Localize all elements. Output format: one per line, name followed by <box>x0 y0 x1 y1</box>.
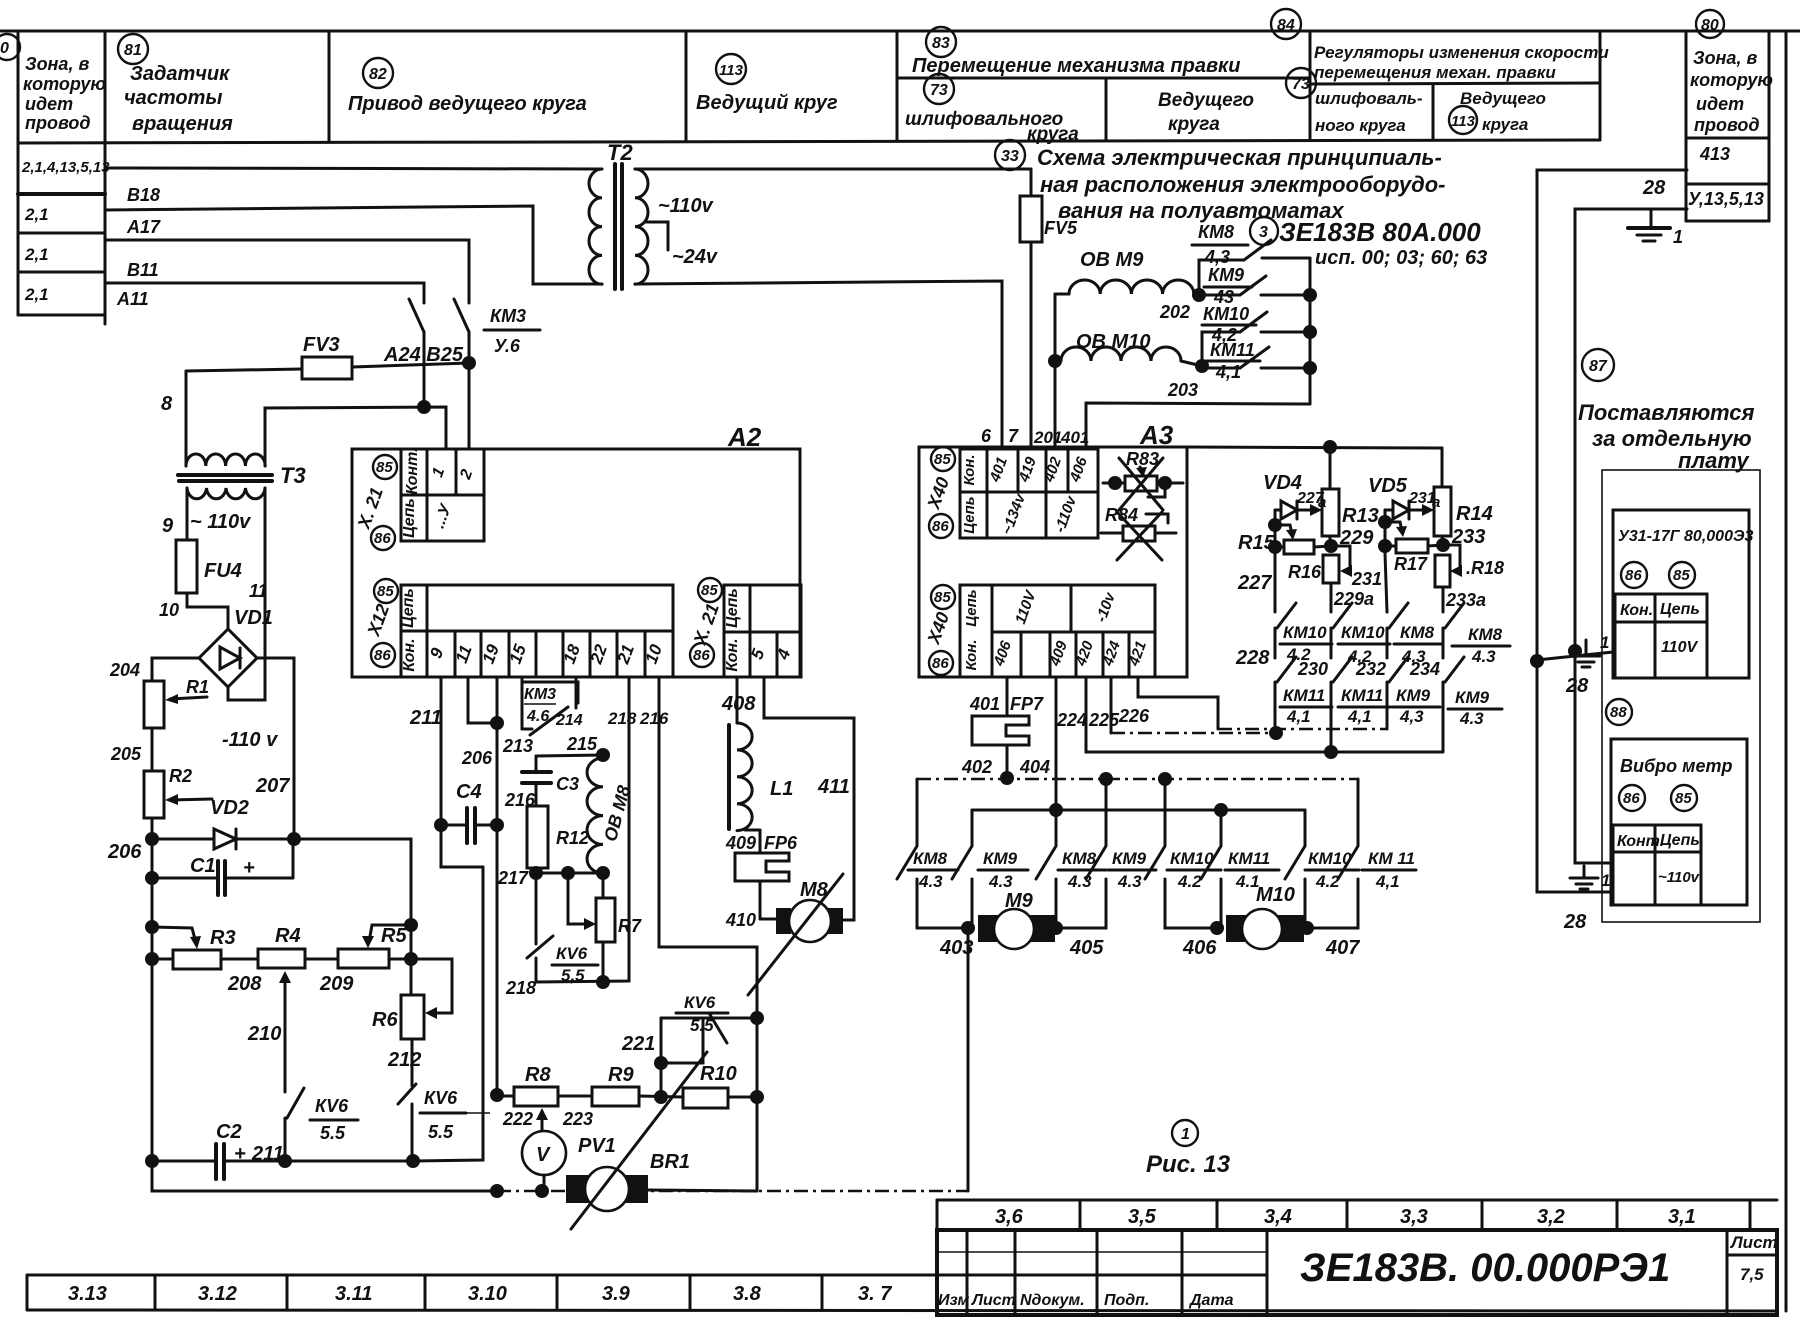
svg-text:ного круга: ного круга <box>1315 116 1406 135</box>
wire pin10 / 216 <box>659 677 757 1191</box>
svg-text:86: 86 <box>693 647 710 664</box>
wire node211 row <box>285 1160 413 1163</box>
rheostat R7 <box>568 873 642 942</box>
svg-text:А11: А11 <box>116 289 149 309</box>
wire T2 secondary bottom (6/7) <box>635 281 1002 447</box>
svg-text:3.10: 3.10 <box>468 1283 507 1305</box>
ladder right bus <box>1303 258 1317 404</box>
svg-text:КV6: КV6 <box>424 1088 458 1108</box>
svg-text:R5: R5 <box>381 925 407 947</box>
svg-text:3,4: 3,4 <box>1264 1206 1292 1228</box>
node R10 right dot <box>750 1090 764 1104</box>
svg-text:7: 7 <box>1008 426 1019 446</box>
svg-text:225: 225 <box>1088 710 1120 730</box>
thermal relay FP6 <box>725 830 798 919</box>
svg-text:Кон.: Кон. <box>401 638 418 671</box>
wire 224 pin420 <box>1086 677 1442 752</box>
svg-text:Схема электрическая принципиа: Схема электрическая принципиаль- <box>1037 145 1442 170</box>
circle 85 (У31) <box>1669 562 1695 588</box>
node 206 dot <box>145 832 159 846</box>
svg-text:88: 88 <box>1610 704 1627 721</box>
circle 85 (X.21 top) <box>373 455 397 479</box>
rheostat R16 <box>1288 546 1352 610</box>
svg-text:R4: R4 <box>275 925 301 947</box>
svg-text:113: 113 <box>1451 113 1476 130</box>
circle 85 (X.21 right) <box>698 578 722 602</box>
svg-text:Вибро метр: Вибро метр <box>1620 756 1732 776</box>
svg-text:шлифоваль-: шлифоваль- <box>1315 89 1423 108</box>
svg-text:Цепь: Цепь <box>961 496 978 533</box>
svg-text:3.12: 3.12 <box>198 1283 237 1305</box>
junction dot A24 wire <box>417 400 431 414</box>
svg-text:409: 409 <box>725 833 756 853</box>
wire 201/202 left vertical <box>1054 294 1057 447</box>
svg-text:В18: В18 <box>127 185 160 205</box>
contact col4 KM9 4.3 (M9 right) <box>1056 779 1156 928</box>
potentiometer R17 <box>1378 510 1443 574</box>
node VD5/R17 wiper dot <box>1378 515 1392 529</box>
zone circle 1 <box>1172 1120 1198 1146</box>
svg-text:209: 209 <box>319 973 354 995</box>
contact col1 KM8 4.3 (M9) <box>897 779 968 928</box>
svg-text:А17: А17 <box>126 217 161 237</box>
resistor R4 <box>221 925 305 968</box>
circle 85 (X40 top) <box>931 447 955 471</box>
svg-text:Ведущий круг: Ведущий круг <box>696 92 838 114</box>
svg-text:R83: R83 <box>1126 449 1159 469</box>
svg-text:230: 230 <box>1297 659 1328 679</box>
svg-text:КМ11: КМ11 <box>1210 340 1255 360</box>
connector X.21 table (right) <box>724 585 801 677</box>
circle 85 (X40 bottom) <box>931 585 955 609</box>
node VD4/R15 wiper dot <box>1268 518 1282 532</box>
label KM8/4.3 (top) <box>1192 222 1248 267</box>
svg-text:4.3: 4.3 <box>988 872 1013 891</box>
zone circle 73 col E <box>924 74 954 104</box>
svg-text:218: 218 <box>505 978 536 998</box>
svg-text:КМ9: КМ9 <box>983 849 1018 868</box>
svg-text:4.2: 4.2 <box>1177 872 1202 891</box>
svg-text:+: + <box>243 857 255 879</box>
wire 215 <box>536 755 603 756</box>
svg-text:R14: R14 <box>1456 503 1493 525</box>
wire FU4 to VD1 top <box>187 593 228 629</box>
svg-text:211: 211 <box>409 707 442 729</box>
svg-text:М10: М10 <box>1256 884 1295 906</box>
svg-text:R3: R3 <box>210 927 236 949</box>
resistor R13 <box>1322 448 1379 549</box>
svg-text:234: 234 <box>1409 659 1440 679</box>
diode VD5 <box>1368 475 1440 519</box>
wire 225 pin424 <box>1111 677 1276 733</box>
block Виброметр <box>1611 739 1747 905</box>
wire pin406 to FP7 <box>1006 677 1009 716</box>
svg-text:1: 1 <box>1181 1126 1190 1143</box>
svg-text:85: 85 <box>934 589 951 606</box>
bottom zone strip (left) <box>27 1275 1777 1311</box>
contact KM9 43 (ladder) <box>1199 265 1310 307</box>
M8 coupling slash <box>748 874 843 995</box>
svg-text:Цепь: Цепь <box>400 588 417 628</box>
svg-text:КМ8: КМ8 <box>913 849 948 868</box>
svg-text:7,5: 7,5 <box>1740 1265 1764 1284</box>
crossed resistor R84 <box>1101 505 1176 560</box>
svg-text:КМ8: КМ8 <box>1062 849 1097 868</box>
svg-text:Цепь: Цепь <box>724 588 741 628</box>
junction dot FV3/B25 <box>462 356 476 370</box>
zone circle 30 <box>0 34 20 60</box>
svg-text:Лист: Лист <box>971 1292 1016 1309</box>
svg-text:R16: R16 <box>1288 562 1322 582</box>
svg-text:0: 0 <box>0 40 9 57</box>
svg-text:205: 205 <box>110 744 142 764</box>
svg-text:FР7: FР7 <box>1010 694 1044 714</box>
svg-text:411: 411 <box>817 776 850 798</box>
wire pin19 <box>496 677 499 1095</box>
svg-text:ЗЕ183В. 00.000РЭ1: ЗЕ183В. 00.000РЭ1 <box>1300 1246 1670 1290</box>
circle 86 (Виброметр) <box>1619 785 1645 811</box>
svg-text:202: 202 <box>1159 302 1190 322</box>
svg-text:R2: R2 <box>169 766 192 786</box>
svg-text:401: 401 <box>969 694 1000 714</box>
text Поставляются за отдельную плату <box>1578 400 1754 473</box>
wire R2 to node 206 <box>151 818 154 839</box>
svg-text:Лист: Лист <box>1729 1233 1778 1252</box>
svg-text:4.6: 4.6 <box>526 708 549 725</box>
wire B11 <box>105 283 424 303</box>
svg-text:85: 85 <box>934 451 951 468</box>
node 213 dot <box>490 716 504 730</box>
svg-text:КМ10: КМ10 <box>1283 623 1327 642</box>
svg-text:КV6: КV6 <box>315 1096 349 1116</box>
svg-text:Кон.: Кон. <box>724 638 741 671</box>
svg-text:406: 406 <box>1182 937 1217 959</box>
header table: left zone column box <box>18 33 1600 324</box>
connector X.21 table (top) <box>401 447 484 541</box>
node 405 dot <box>1049 921 1063 935</box>
wire 28 vertical to У31 <box>1530 654 1544 668</box>
svg-text:провод: провод <box>25 113 91 133</box>
svg-text:КМ9: КМ9 <box>1455 688 1490 707</box>
header text: Задатчик частоты вращения <box>124 63 233 135</box>
potentiometer R15 <box>1238 510 1331 554</box>
svg-text:1: 1 <box>1600 633 1609 652</box>
right zone table (80) <box>1686 33 1769 221</box>
rheostat R6 <box>372 995 424 1039</box>
svg-text:403: 403 <box>939 937 973 959</box>
rail 402 <box>917 772 1358 786</box>
svg-text:которую: которую <box>1690 70 1773 90</box>
field winding OB M9 coil <box>1055 249 1199 295</box>
svg-text:216: 216 <box>639 709 669 728</box>
contact chain col4 KM8 4.3 / KM9 4.3 <box>1443 603 1510 752</box>
svg-text:Рис. 13: Рис. 13 <box>1146 1151 1231 1178</box>
thermal relay FP7 <box>972 716 1029 778</box>
wire 217 <box>536 872 603 875</box>
svg-text:Т2: Т2 <box>607 140 633 165</box>
svg-text:идет: идет <box>25 94 73 114</box>
svg-text:R8: R8 <box>525 1064 551 1086</box>
svg-text:3.13: 3.13 <box>68 1283 107 1305</box>
svg-text:КМ9: КМ9 <box>1208 265 1244 285</box>
crossed resistor R83 <box>1103 449 1183 510</box>
svg-text:КМ8: КМ8 <box>1198 222 1234 242</box>
header text: Регуляторы изменения скорости перемещения механ правки <box>1314 43 1609 82</box>
svg-text:2,1: 2,1 <box>24 245 49 264</box>
svg-text:211: 211 <box>251 1143 284 1165</box>
motor M10 <box>1226 884 1304 949</box>
svg-text:86: 86 <box>932 518 949 535</box>
header text: Ведущего круга (col E) <box>1158 90 1254 135</box>
wire У,13,5,13 ground branch <box>1575 209 1687 647</box>
T2 24V tap <box>646 222 668 250</box>
svg-text:круга: круга <box>1027 124 1079 145</box>
svg-text:+: + <box>234 1143 246 1165</box>
svg-text:3,2: 3,2 <box>1537 1206 1565 1228</box>
wire B18 <box>105 206 602 284</box>
svg-text:КМ11: КМ11 <box>1341 686 1383 705</box>
wire pin11 jog <box>468 677 497 723</box>
wire 8 vertical to T3 <box>185 371 188 466</box>
wire A17 <box>105 240 469 303</box>
svg-text:КМ3: КМ3 <box>524 686 556 703</box>
header column line between col113 and col83 <box>896 31 899 141</box>
svg-text:ОВ М9: ОВ М9 <box>1080 249 1144 271</box>
circle 86 (X40 top) <box>929 514 953 538</box>
wire node207 to pin9/211 branch <box>294 839 411 925</box>
node 207 dot <box>287 832 301 846</box>
svg-text:113: 113 <box>719 62 744 79</box>
wire У,13,5,13 vertical dot <box>1568 644 1582 658</box>
svg-text:R1: R1 <box>186 677 209 697</box>
svg-text:Зона, в: Зона, в <box>1693 48 1757 68</box>
potentiometer R1 <box>144 677 209 728</box>
svg-text:86: 86 <box>932 655 949 672</box>
svg-text:~110v: ~110v <box>658 195 715 217</box>
svg-text:3. 7: 3. 7 <box>858 1283 892 1305</box>
svg-text:3: 3 <box>1259 224 1268 241</box>
header column line between col83 and col84 <box>1309 33 1312 140</box>
circle 85 (Виброметр) <box>1671 785 1697 811</box>
zone circle 82 <box>363 58 393 88</box>
circle 86 (X12) <box>371 643 395 667</box>
zone circle 33 <box>995 140 1025 170</box>
svg-text:402: 402 <box>961 757 992 777</box>
svg-text:РV1: РV1 <box>578 1135 616 1157</box>
BR1 coupling slash <box>571 1052 707 1229</box>
wire left rail to bottom rail <box>152 1161 497 1191</box>
header text: Зона в которую идет провод (left) <box>23 54 106 133</box>
label 218 216 (pins) <box>607 709 669 728</box>
svg-text:8: 8 <box>161 393 173 415</box>
svg-text:У.6: У.6 <box>494 336 521 356</box>
svg-text:исп. 00; 03; 60; 63: исп. 00; 03; 60; 63 <box>1315 247 1487 269</box>
svg-text:~ 110v: ~ 110v <box>190 511 252 533</box>
wire T2 secondary top to FV5 <box>635 168 1031 171</box>
left rail down <box>151 878 154 1161</box>
resistor R12 <box>527 806 589 873</box>
node 211 dot <box>278 1154 292 1168</box>
svg-text:круга: круга <box>1168 114 1220 135</box>
transformer T3 <box>178 454 306 499</box>
svg-text:С2: С2 <box>216 1121 242 1143</box>
contact KM8 4.3 (ladder) <box>1199 240 1310 295</box>
contact chain col2 KM10 4.2 / KM11 4.1 <box>1331 603 1390 752</box>
svg-text:73: 73 <box>1292 76 1310 93</box>
svg-text:1: 1 <box>1601 871 1610 890</box>
zone circle 87 <box>1582 349 1614 381</box>
svg-text:229а: 229а <box>1333 589 1374 609</box>
circle 86 (X40 bottom) <box>929 651 953 675</box>
contact col7 KM10 4.2 (M10 right) <box>1285 810 1359 928</box>
motor M9 <box>978 890 1055 949</box>
svg-text:213: 213 <box>502 736 533 756</box>
wire 2,1,4,13,5,13 to T2 primary top <box>105 168 602 169</box>
block У31-17Г 80.000Э3 <box>1613 510 1753 678</box>
ground symbol (top right) <box>1628 209 1683 247</box>
svg-text:2,1: 2,1 <box>24 205 49 224</box>
svg-text:86: 86 <box>1623 790 1640 807</box>
svg-text:28: 28 <box>1563 911 1587 933</box>
wire VD1 right output down to node 207 <box>257 658 294 839</box>
svg-text:КМ8: КМ8 <box>1468 625 1503 644</box>
svg-text:233а: 233а <box>1445 590 1486 610</box>
svg-text:3,5: 3,5 <box>1128 1206 1157 1228</box>
wire col3 top from VD5 node <box>1384 546 1387 553</box>
svg-text:218: 218 <box>607 709 637 728</box>
svg-text:-110 v: -110 v <box>222 729 279 751</box>
svg-text:КМ9: КМ9 <box>1112 849 1147 868</box>
svg-text:Конт.: Конт. <box>404 447 421 494</box>
svg-text:А3: А3 <box>1139 420 1174 450</box>
svg-text:214: 214 <box>555 712 583 729</box>
svg-text:204: 204 <box>109 660 140 680</box>
svg-text:FV3: FV3 <box>303 334 340 356</box>
svg-text:С3: С3 <box>556 774 579 794</box>
node 402 dot on rail <box>1000 771 1014 785</box>
svg-text:С1: С1 <box>190 855 216 877</box>
svg-text:Ведущего: Ведущего <box>1158 90 1254 111</box>
svg-text:224: 224 <box>1056 710 1087 730</box>
title block labels <box>938 1233 1778 1309</box>
svg-text:которую: которую <box>23 74 106 94</box>
contact chain col1 KM10 4.2 / KM11 4.1 <box>1275 553 1332 733</box>
svg-text:203: 203 <box>1167 380 1198 400</box>
diode VD2 <box>152 797 294 849</box>
svg-text:3,3: 3,3 <box>1400 1206 1428 1228</box>
connector X40 table (bottom) <box>960 585 1155 677</box>
title block <box>937 1230 1777 1315</box>
svg-text:86: 86 <box>1625 567 1642 584</box>
zone circle 84 <box>1271 9 1301 39</box>
svg-text:5.5: 5.5 <box>320 1123 346 1143</box>
node 217 dots <box>529 866 610 880</box>
svg-text:73: 73 <box>930 82 948 99</box>
sheet frame right border <box>1785 31 1788 1311</box>
svg-text:227: 227 <box>1237 572 1272 594</box>
inductor L1 <box>729 677 793 831</box>
ground symbol (У31) <box>1572 640 1600 667</box>
svg-text:208: 208 <box>227 973 262 995</box>
svg-text:FР6: FР6 <box>764 833 798 853</box>
motor M8 <box>760 879 843 942</box>
svg-text:Регуляторы изменения скорости: Регуляторы изменения скорости <box>1314 43 1609 62</box>
wire VD1 left output to R1 <box>152 658 199 681</box>
svg-text:9: 9 <box>162 515 174 537</box>
svg-text:217: 217 <box>497 868 529 888</box>
contact KV6 5.5 (217-218) <box>527 873 598 985</box>
header col84 sub-row line <box>1310 83 1600 84</box>
svg-text:Кон.: Кон. <box>1620 602 1653 619</box>
header col84 right edge <box>1599 33 1602 140</box>
svg-text:VD5: VD5 <box>1368 475 1408 497</box>
svg-text:3.9: 3.9 <box>602 1283 631 1305</box>
wire pin9 / 211 <box>441 677 483 867</box>
svg-text:VD1: VD1 <box>234 607 273 629</box>
sheet frame top border <box>0 30 1800 33</box>
zone circle 3 <box>1250 217 1278 245</box>
circle 86 (X.21 right) <box>690 643 714 667</box>
svg-text:Т3: Т3 <box>280 463 306 488</box>
title text Схема электрическая принципиаль- <box>1037 145 1445 223</box>
svg-text:.R18: .R18 <box>1466 558 1504 578</box>
svg-text:401: 401 <box>1060 428 1089 447</box>
svg-text:231: 231 <box>1351 569 1382 589</box>
header column line between col82 and col113 <box>685 31 688 141</box>
node 407 dot <box>1300 921 1314 935</box>
svg-text:3.8: 3.8 <box>733 1283 762 1305</box>
wire 408 T3 right to A2 pin1 <box>265 407 446 466</box>
svg-text:82: 82 <box>369 66 387 83</box>
zone circle 73 col F <box>1286 68 1316 98</box>
block A3 outline <box>919 447 1187 677</box>
circle 86 (X.21 top) <box>371 526 395 550</box>
svg-text:221: 221 <box>621 1033 655 1055</box>
svg-text:86: 86 <box>374 647 391 664</box>
svg-text:4.3: 4.3 <box>1117 872 1142 891</box>
svg-text:110V: 110V <box>1661 639 1699 656</box>
zone circle 83 <box>926 27 956 57</box>
resistor R3 <box>152 927 236 969</box>
contact col6 KM11 4.1 (M10) <box>1201 810 1279 925</box>
svg-text:4,3: 4,3 <box>1204 247 1230 267</box>
svg-text:КМ11: КМ11 <box>1228 849 1270 868</box>
svg-text:4.3: 4.3 <box>1459 709 1484 728</box>
svg-text:Цепь: Цепь <box>401 498 418 538</box>
svg-text:4.3: 4.3 <box>918 872 943 891</box>
right zone table texts <box>1688 48 1773 209</box>
contact KM10 4.2 (ladder) <box>1202 304 1310 366</box>
top rail to R13/R14 <box>1187 440 1442 454</box>
svg-text:КМ10: КМ10 <box>1341 623 1385 642</box>
svg-text:413: 413 <box>1699 144 1730 164</box>
svg-text:КV6: КV6 <box>684 993 716 1012</box>
svg-text:КМ11: КМ11 <box>1283 686 1325 705</box>
svg-text:КV6: КV6 <box>556 944 588 963</box>
svg-text:206: 206 <box>461 748 493 768</box>
potentiometer R2 <box>144 766 212 818</box>
circle 85 (X12) <box>374 579 398 603</box>
contact KV6 5.5 (wire 210) <box>285 1088 358 1161</box>
header col83 subcolumn split <box>1105 78 1108 140</box>
svg-text:В11: В11 <box>127 260 159 280</box>
wire labels B18 A17 B11 A11 <box>116 185 161 309</box>
ladder bottom wire to pin 406 <box>1086 403 1310 447</box>
svg-text:3.11: 3.11 <box>335 1283 372 1305</box>
svg-text:частоты: частоты <box>124 87 223 109</box>
node dot KV6/pin10 <box>750 1011 764 1025</box>
svg-text:85: 85 <box>701 582 718 599</box>
